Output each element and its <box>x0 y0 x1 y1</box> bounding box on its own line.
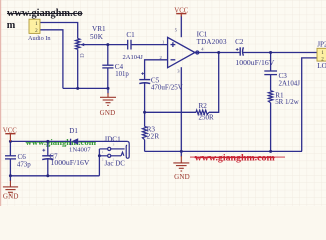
capacitor C5 polarized <box>139 80 150 84</box>
sheet border left edge <box>0 0 1 206</box>
wire R1 bottom <box>270 103 272 152</box>
connector JP1 Audio In <box>29 19 40 34</box>
svg-text:C4: C4 <box>115 63 124 71</box>
capacitor C3 <box>264 71 277 75</box>
junction VR1 bottom <box>76 87 79 90</box>
svg-text:250R: 250R <box>199 114 215 122</box>
svg-text:TDA2003: TDA2003 <box>197 38 227 46</box>
svg-text:1000uF/16V: 1000uF/16V <box>51 158 90 167</box>
resistor R1 <box>268 91 272 103</box>
resistor R3 <box>142 127 146 140</box>
wire C6 branch <box>9 141 11 155</box>
svg-text:C6: C6 <box>18 153 27 161</box>
wire output to C2 <box>195 52 240 54</box>
capacitor C7 polarized <box>42 156 53 160</box>
wire C4 branch top <box>107 45 109 66</box>
svg-text:R2: R2 <box>199 102 208 110</box>
junction wiper node / C4 top <box>106 43 109 46</box>
jack pin numbers <box>102 143 115 162</box>
svg-text:GND: GND <box>174 173 190 181</box>
wire C6 bottom <box>9 159 11 176</box>
capacitor C2 polarized <box>240 47 243 55</box>
potentiometer VR1 <box>76 39 80 50</box>
svg-text:C3: C3 <box>279 72 288 80</box>
VR1 wiper arrow <box>80 43 84 46</box>
junction C7 top / VCC rail <box>46 140 49 143</box>
junction output / C3 R1 branch <box>269 51 272 54</box>
svg-text:C2: C2 <box>235 38 244 46</box>
resistor R2 <box>196 110 209 114</box>
svg-text:D1: D1 <box>69 127 78 135</box>
wire C5 bottom to node <box>144 83 146 127</box>
svg-text:www.gianghm.com: www.gianghm.com <box>195 152 276 163</box>
wire rail A <box>63 87 108 89</box>
capacitor C6 <box>5 156 16 159</box>
wire pin1 JP1 to VR1 top <box>40 23 78 39</box>
ground GND3 <box>180 151 182 156</box>
connector JP2 <box>317 48 326 62</box>
C7 plus sign <box>42 149 45 152</box>
wire jack left vertical <box>98 149 100 176</box>
wire wiper to C1 <box>81 44 127 46</box>
C2 plus sign <box>236 48 239 51</box>
svg-text:1N4007: 1N4007 <box>69 147 91 154</box>
svg-text:1000uF/16V: 1000uF/16V <box>235 58 274 67</box>
op-amp U1 TDA2003 <box>168 37 199 67</box>
power VCC left <box>3 127 17 141</box>
svg-text:2A104J: 2A104J <box>123 54 144 61</box>
svg-text:www.gianghm.co: www.gianghm.co <box>7 8 83 19</box>
svg-text:2: 2 <box>102 158 104 162</box>
svg-text:5R 1/2w: 5R 1/2w <box>275 99 299 106</box>
diode D1 1N4007 <box>71 138 79 145</box>
svg-text:101p: 101p <box>115 71 129 78</box>
svg-text:2: 2 <box>113 158 115 162</box>
svg-text:Audio In: Audio In <box>28 35 51 42</box>
wire node to R2 left <box>145 111 196 113</box>
junction ground rail / GND tap <box>180 150 183 153</box>
capacitor C4 <box>102 65 113 68</box>
svg-text:1: 1 <box>102 150 104 154</box>
junction C6 bottom / GND rail <box>9 174 12 177</box>
connector JDC1 jack <box>99 141 129 158</box>
op-amp pin numbers <box>160 28 205 74</box>
junction C4 bottom / GND tap <box>107 87 110 90</box>
wire C7 branch <box>47 141 49 155</box>
wire op-amp pin5 stem <box>180 16 182 38</box>
wire JP2 pin2 return <box>302 58 317 151</box>
svg-text:GND: GND <box>100 109 116 117</box>
wire R2 right up to output <box>209 53 219 113</box>
wire C3 to R1 <box>270 75 272 91</box>
svg-text:D: D <box>80 53 86 58</box>
svg-text:470uF/25V: 470uF/25V <box>151 84 183 92</box>
ground GND1 <box>9 176 11 181</box>
svg-text:LOA: LOA <box>317 62 326 70</box>
wire rail B <box>145 150 302 152</box>
wire rail C VCC <box>10 140 70 142</box>
wire op-amp pin3 to rail B <box>180 67 182 151</box>
junction VCC stem / rail <box>9 140 12 143</box>
svg-text:C1: C1 <box>126 31 135 39</box>
svg-text:JP2: JP2 <box>317 41 326 49</box>
C5 plus sign <box>141 72 144 75</box>
svg-text:GND: GND <box>3 192 19 200</box>
capacitor C1 <box>128 40 131 50</box>
junction output / R2 feedback <box>217 51 220 54</box>
junction ground rail / R1 bottom <box>269 150 272 153</box>
svg-text:3: 3 <box>113 143 115 147</box>
svg-text:m: m <box>7 20 16 31</box>
svg-text:2A104J: 2A104J <box>279 80 301 87</box>
svg-text:473p: 473p <box>17 161 31 168</box>
wire rail D <box>10 175 99 177</box>
power VCC top <box>174 7 188 16</box>
ground GND2 <box>107 88 109 93</box>
wire C4 branch bottom <box>107 68 109 89</box>
wire R3 bottom to rail B <box>144 140 146 152</box>
wire C1 to op-amp pin1 <box>131 44 168 46</box>
wire C2 to JP2 pin1 <box>243 52 317 54</box>
wire D1 anode to jack <box>78 140 127 142</box>
svg-text:22R: 22R <box>147 132 160 140</box>
junction C7 bottom / rail <box>46 174 49 177</box>
wire pin2 JP1 down <box>40 30 63 89</box>
junction C5/R3/R2 node <box>143 111 146 114</box>
wire op-amp pin2 to C5 <box>145 60 168 80</box>
svg-text:Jac DC: Jac DC <box>105 159 126 167</box>
wire C3 R1 column top <box>270 53 272 72</box>
svg-text:50K: 50K <box>90 33 104 41</box>
junction jack pin2 node <box>98 154 101 157</box>
svg-text:VR1: VR1 <box>92 25 106 33</box>
wire C7 bottom <box>47 159 49 176</box>
wire VR1 bottom lead <box>77 49 79 88</box>
